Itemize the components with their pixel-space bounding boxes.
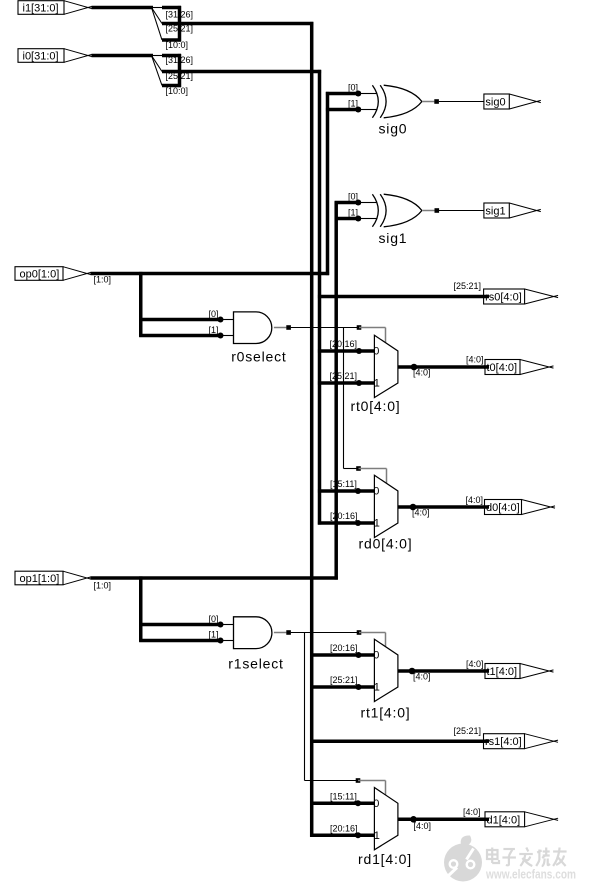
wire rs0 horizontal bus xyxy=(318,295,487,299)
junction rd0 select node xyxy=(356,466,361,471)
wire vertical bus B (i0) xyxy=(318,70,322,525)
wire i1[25:21] horizontal bus xyxy=(162,22,313,26)
junction sig1 output node xyxy=(435,208,440,213)
label sig1 gate name xyxy=(379,230,408,246)
junction rt0 select node xyxy=(357,325,362,330)
svg-text:[4:0]: [4:0] xyxy=(414,821,432,831)
label sig0 pin [0] xyxy=(348,83,358,93)
wire sig1 input tap [1] xyxy=(335,217,361,221)
label r0select pin [1] xyxy=(208,325,218,335)
svg-text:[4:0]: [4:0] xyxy=(465,495,483,505)
wire sig1 input stubs xyxy=(361,203,377,219)
wire rs1 bus overlap xyxy=(483,739,489,743)
svg-text:[0]: [0] xyxy=(208,309,218,319)
svg-text:0: 0 xyxy=(373,798,379,810)
label rd1 mux select 1 xyxy=(374,830,380,842)
junction rt1 select node xyxy=(357,630,362,635)
wire rd1 output bus xyxy=(398,818,488,822)
svg-text:[20:16]: [20:16] xyxy=(330,511,358,521)
output port sig1 xyxy=(484,203,541,218)
svg-text:[10:0]: [10:0] xyxy=(166,86,189,96)
xor gate sig0 xyxy=(372,85,422,118)
wire r1select net branch vertical xyxy=(304,633,306,781)
input port i1[31:0] xyxy=(18,1,92,15)
label r1select pin [1] xyxy=(208,630,218,640)
label rd1 pin [15:11] xyxy=(330,792,357,802)
svg-text:[0]: [0] xyxy=(348,192,358,202)
label rt0 mux select 1 xyxy=(374,378,380,390)
junction rt0 output blob xyxy=(411,364,418,371)
label rd0 mux select 1 xyxy=(374,518,380,530)
junction rd1 select node xyxy=(356,778,361,783)
wire rd1 select stub xyxy=(358,781,386,795)
svg-text:[20:16]: [20:16] xyxy=(330,339,358,349)
svg-text:[25:21]: [25:21] xyxy=(453,281,481,291)
svg-text:[4:0]: [4:0] xyxy=(466,659,484,669)
watermark elecfans logo and text xyxy=(444,835,576,881)
junction r1select output node xyxy=(286,630,291,635)
wire r0select net horizontal xyxy=(291,327,359,329)
label rt1 pin [25:21] xyxy=(330,675,358,685)
svg-text:[15:11]: [15:11] xyxy=(330,479,357,489)
output port t1[4:0] xyxy=(485,664,554,679)
output port rs1[4:0] xyxy=(484,734,559,749)
label op0 net [1:0] xyxy=(94,274,112,284)
junction sig0 output node xyxy=(434,99,439,104)
label rd1 mux name xyxy=(358,851,412,867)
svg-text:[25:21]: [25:21] xyxy=(330,371,358,381)
junction rd0 tap blobs xyxy=(355,488,361,526)
label r0select gate name xyxy=(231,348,286,364)
svg-text:[4:0]: [4:0] xyxy=(412,508,430,518)
svg-text:op1[1:0]: op1[1:0] xyxy=(20,573,60,585)
label op1 net [1:0] xyxy=(94,581,112,591)
mux rt1 xyxy=(374,639,398,701)
and gate r0select xyxy=(234,312,272,344)
label rd0 mux name xyxy=(359,536,413,552)
svg-text:www.elecfans.com: www.elecfans.com xyxy=(485,868,576,882)
wire r0select output stub xyxy=(274,327,287,329)
wire rt0 select stub xyxy=(359,328,386,343)
wire d0 bus overlap xyxy=(484,505,489,509)
wire op0 branch vertical xyxy=(139,272,143,337)
svg-text:[4:0]: [4:0] xyxy=(466,355,484,365)
label rd1 out [4:0] xyxy=(414,821,432,831)
svg-text:[4:0]: [4:0] xyxy=(413,672,431,682)
svg-text:[4:0]: [4:0] xyxy=(413,367,431,377)
svg-text:[0]: [0] xyxy=(348,83,358,93)
wire vertical bus A (i1) xyxy=(310,22,314,837)
wire vertical bus C (sig0 inputs) xyxy=(326,92,330,275)
wire sig0 input stubs xyxy=(361,94,377,110)
wire op1 horizontal bus xyxy=(91,576,338,580)
wire rs1 horizontal bus xyxy=(310,739,487,743)
label rd0 pin [20:16] xyxy=(330,511,358,521)
wire op1 branch vertical xyxy=(139,576,143,641)
label rd1 pin [20:16] xyxy=(330,824,358,834)
wire rd1 input tap [20:16] xyxy=(310,834,376,838)
label sig0 pin [1] xyxy=(348,99,358,109)
junction r0select tap blobs xyxy=(218,317,224,339)
wire rt0 input tap [25:21] xyxy=(318,381,377,385)
wire r1select net to rd1 horizontal xyxy=(305,780,359,782)
wire t1 bus overlap xyxy=(484,669,489,673)
svg-text:i1[31:0]: i1[31:0] xyxy=(23,3,59,15)
svg-text:rd1[4:0]: rd1[4:0] xyxy=(358,851,412,867)
mux rd0 xyxy=(374,475,398,537)
wire rt0 input tap [20:16] xyxy=(318,349,377,353)
wire r1select net horizontal xyxy=(291,632,359,634)
junction r0select output node xyxy=(286,325,291,330)
wire rd0 input tap [15:11] xyxy=(318,489,377,493)
svg-text:0: 0 xyxy=(373,346,379,358)
svg-text:[4:0]: [4:0] xyxy=(463,807,481,817)
svg-text:[1]: [1] xyxy=(348,99,358,109)
svg-text:[1]: [1] xyxy=(208,630,218,640)
wire r0select input tap [1] xyxy=(139,334,219,338)
svg-text:t0[4:0]: t0[4:0] xyxy=(487,362,518,374)
wire rt1 input tap [20:16] xyxy=(310,653,376,657)
label r1select gate name xyxy=(228,655,283,671)
svg-text:1: 1 xyxy=(374,378,380,390)
junction rd1 tap blobs xyxy=(355,800,361,838)
wire r1select input tap [1] xyxy=(139,639,219,643)
wire op0 horizontal bus xyxy=(91,272,330,276)
mux rt0 xyxy=(374,335,398,397)
bus splitter i0 taps xyxy=(162,54,181,87)
label rd0 out [4:0] xyxy=(412,508,430,518)
wire i0[25:21] horizontal bus xyxy=(162,70,321,74)
wire r0select input stubs xyxy=(220,320,235,336)
label r1select pin [0] xyxy=(208,614,218,624)
label rd1 mux select 0 xyxy=(373,798,379,810)
svg-text:0: 0 xyxy=(373,650,379,662)
label rt1 pin [20:16] xyxy=(330,643,358,653)
svg-text:0: 0 xyxy=(373,486,379,498)
svg-text:[1]: [1] xyxy=(208,325,218,335)
label d1 net [4:0] xyxy=(463,807,481,817)
junction rt1 output blob xyxy=(409,668,416,675)
bus splitter i0 slice labels xyxy=(166,55,194,96)
svg-text:[1]: [1] xyxy=(348,208,358,218)
input port i0[31:0] xyxy=(18,49,92,63)
wire sig1 output net xyxy=(439,210,485,212)
wire sig1 output stub xyxy=(422,210,434,212)
wire rt1 select stub xyxy=(359,633,386,647)
wire rt0 output bus xyxy=(398,365,488,369)
output port d1[4:0] xyxy=(485,812,558,827)
wire i1 port bus xyxy=(92,6,154,10)
xor gate sig1 xyxy=(372,194,422,227)
wire i1 fan lines xyxy=(152,8,163,41)
wire i0 port bus xyxy=(92,54,154,58)
svg-text:rd0[4:0]: rd0[4:0] xyxy=(359,536,413,552)
wire r0select net to rd0 horizontal xyxy=(344,468,359,470)
output port d0[4:0] xyxy=(485,500,556,515)
label rt0 out [4:0] xyxy=(413,367,431,377)
label rd0 pin [15:11] xyxy=(330,479,357,489)
svg-text:rt1[4:0]: rt1[4:0] xyxy=(361,704,411,720)
label rt0 mux select 0 xyxy=(373,346,379,358)
svg-text:i0[31:0]: i0[31:0] xyxy=(23,51,59,63)
svg-text:[0]: [0] xyxy=(208,614,218,624)
svg-text:t1[4:0]: t1[4:0] xyxy=(487,666,518,678)
wire rt1 input tap [25:21] xyxy=(310,685,376,689)
label t1 net [4:0] xyxy=(466,659,484,669)
svg-text:sig0: sig0 xyxy=(379,120,408,136)
junction sig0 tap blobs xyxy=(355,91,361,113)
svg-text:d0[4:0]: d0[4:0] xyxy=(486,502,520,514)
wire t0 bus overlap xyxy=(484,365,489,369)
svg-text:[20:16]: [20:16] xyxy=(330,643,358,653)
label t0 net [4:0] xyxy=(466,355,484,365)
junction rd0 output blob xyxy=(410,504,417,511)
wire r1select output stub xyxy=(274,632,287,634)
wire rd0 select stub xyxy=(359,469,387,484)
bus splitter i1 taps xyxy=(162,6,181,42)
svg-text:[15:11]: [15:11] xyxy=(330,792,357,802)
wire rd0 output bus xyxy=(398,505,487,509)
label d0 net [4:0] xyxy=(465,495,483,505)
svg-text:sig1: sig1 xyxy=(485,206,505,218)
label rs0 net [25:21] xyxy=(453,281,481,291)
junction rd1 output blob xyxy=(410,816,417,823)
wire i0 fan lines xyxy=(152,56,163,86)
wire sig0 input tap [0] xyxy=(326,92,361,96)
wire sig1 input tap [0] xyxy=(335,201,361,205)
and gate r1select xyxy=(234,617,272,649)
svg-text:[25:21]: [25:21] xyxy=(330,675,358,685)
wire vertical bus D (sig1 inputs) xyxy=(334,201,338,579)
svg-text:1: 1 xyxy=(374,830,380,842)
wire d1 bus overlap xyxy=(484,818,489,822)
label rt0 pin [25:21] xyxy=(330,371,358,381)
svg-text:r1select: r1select xyxy=(228,655,283,671)
input port op1[1:0] xyxy=(15,571,91,585)
label r0select pin [0] xyxy=(208,309,218,319)
label sig0 gate name xyxy=(379,120,408,136)
output port t0[4:0] xyxy=(485,360,554,375)
output port sig0 xyxy=(484,94,541,109)
input port op0[1:0] xyxy=(15,267,91,281)
label rs1 net [25:21] xyxy=(453,726,481,736)
svg-text:rt0[4:0]: rt0[4:0] xyxy=(351,398,401,414)
svg-text:r0select: r0select xyxy=(231,348,286,364)
svg-text:1: 1 xyxy=(374,682,380,694)
svg-text:sig1: sig1 xyxy=(379,230,408,246)
svg-text:sig0: sig0 xyxy=(485,97,505,109)
wire rt1 output bus xyxy=(398,669,488,673)
junction rt1 tap blobs xyxy=(356,652,362,690)
label rt1 mux select 0 xyxy=(373,650,379,662)
wire rd0 input tap [20:16] xyxy=(318,521,377,525)
wire r1select input tap [0] xyxy=(139,623,219,627)
label rt1 mux select 1 xyxy=(374,682,380,694)
wire sig0 output net xyxy=(439,101,485,103)
junction sig1 tap blobs xyxy=(355,200,361,222)
svg-text:[1:0]: [1:0] xyxy=(94,274,112,284)
label sig1 pin [1] xyxy=(348,208,358,218)
label rd0 mux select 0 xyxy=(373,486,379,498)
label rt1 mux name xyxy=(361,704,411,720)
svg-text:[25:21]: [25:21] xyxy=(453,726,481,736)
junction r1select tap blobs xyxy=(218,622,224,644)
wire r1select input stubs xyxy=(220,625,235,641)
wire rs0 bus overlap xyxy=(483,295,489,299)
svg-text:[1:0]: [1:0] xyxy=(94,581,112,591)
label rt1 out [4:0] xyxy=(413,672,431,682)
label rt0 mux name xyxy=(351,398,401,414)
svg-text:rs1[4:0]: rs1[4:0] xyxy=(485,736,522,748)
wire sig0 input tap [1] xyxy=(326,108,361,112)
junction rt0 tap blobs xyxy=(356,348,362,386)
svg-text:d1[4:0]: d1[4:0] xyxy=(487,814,521,826)
label sig1 pin [0] xyxy=(348,192,358,202)
bus splitter i1 slice labels xyxy=(166,10,194,51)
wire r0select input tap [0] xyxy=(139,318,219,322)
wire rd1 input tap [15:11] xyxy=(310,802,376,806)
svg-text:1: 1 xyxy=(374,518,380,530)
svg-text:rs0[4:0]: rs0[4:0] xyxy=(485,292,522,304)
svg-text:[20:16]: [20:16] xyxy=(330,824,358,834)
mux rd1 xyxy=(374,788,398,850)
svg-text:op0[1:0]: op0[1:0] xyxy=(20,269,60,281)
label rt0 pin [20:16] xyxy=(330,339,358,349)
wire sig0 output stub xyxy=(422,101,434,103)
output port rs0[4:0] xyxy=(484,289,558,304)
wire r0select net branch vertical xyxy=(343,328,345,469)
